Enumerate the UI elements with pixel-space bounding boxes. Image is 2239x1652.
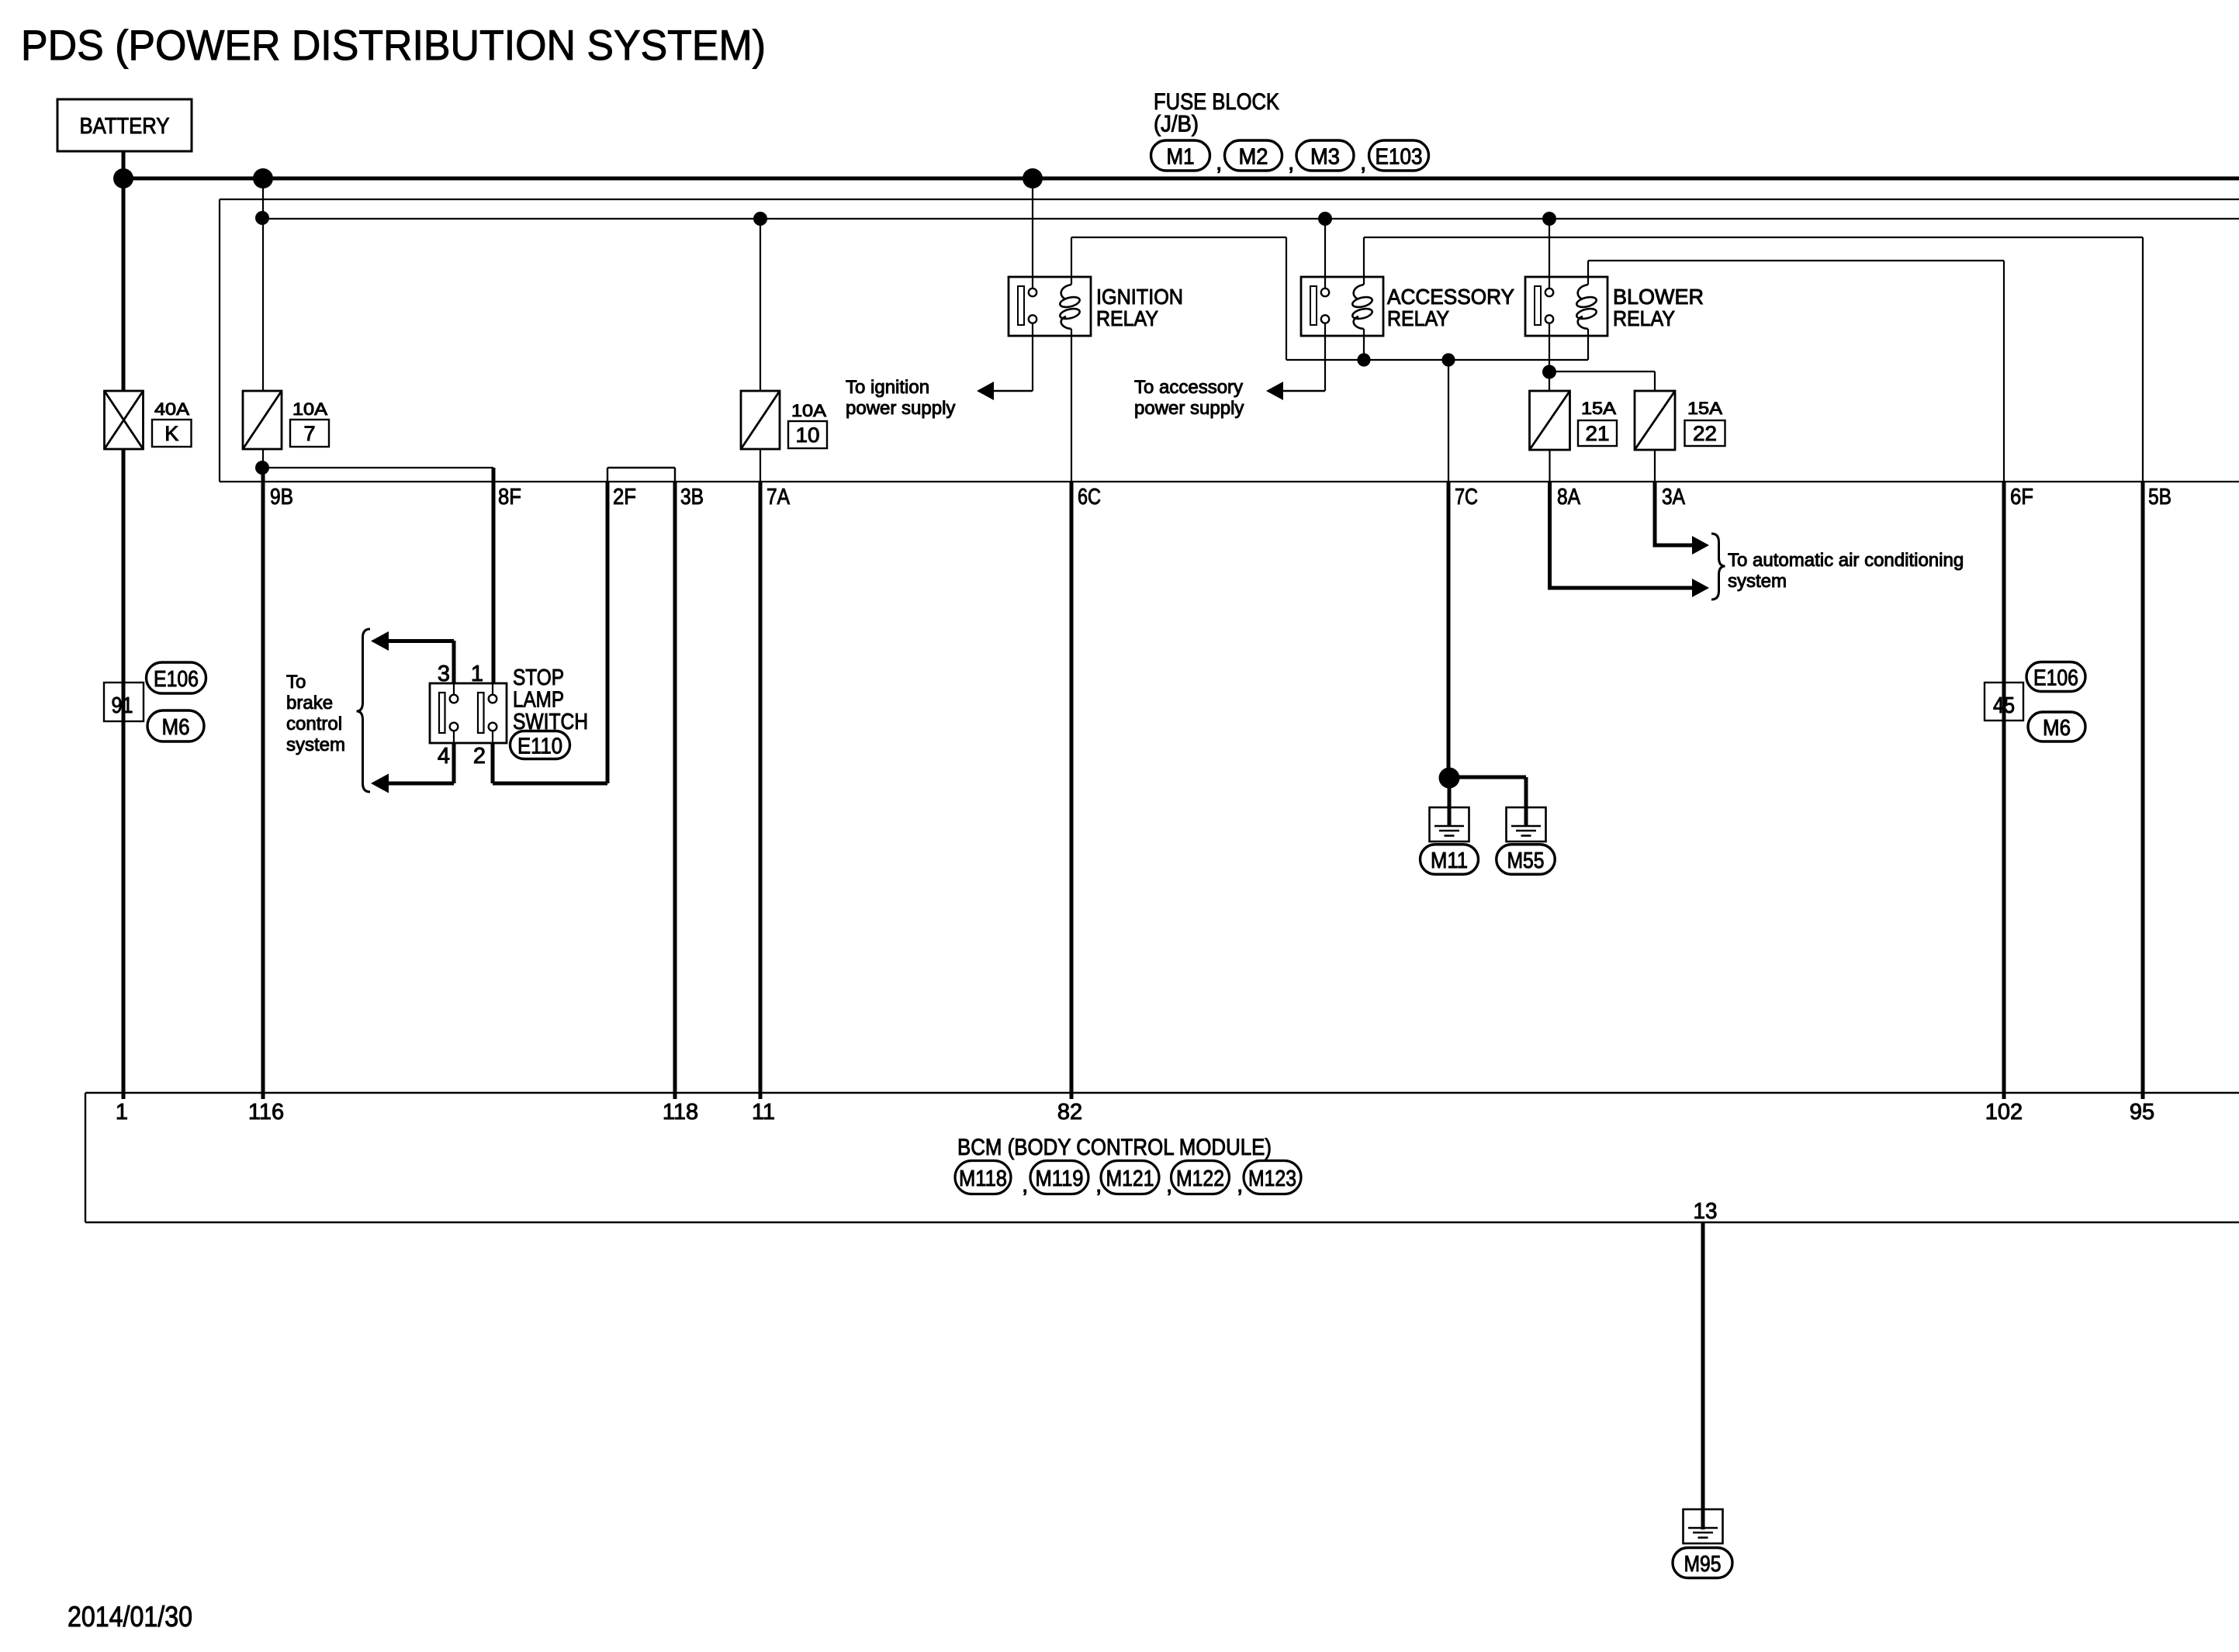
svg-text:M121: M121 [1106, 1166, 1154, 1191]
svg-text:7A: 7A [767, 485, 791, 510]
svg-text:15A: 15A [1581, 399, 1616, 418]
svg-text:M6: M6 [162, 715, 190, 740]
svg-text:M118: M118 [959, 1166, 1007, 1191]
svg-text:IGNITION: IGNITION [1096, 285, 1183, 309]
svg-text:6F: 6F [2010, 485, 2033, 510]
svg-text:,: , [1166, 1172, 1172, 1198]
svg-text:7: 7 [303, 422, 315, 445]
svg-text:11: 11 [752, 1100, 775, 1125]
svg-text:,: , [1022, 1172, 1028, 1198]
svg-text:22: 22 [1693, 422, 1717, 445]
svg-text:K: K [164, 422, 178, 445]
svg-text:6C: 6C [1078, 485, 1101, 510]
svg-text:7C: 7C [1455, 485, 1478, 510]
svg-text:M95: M95 [1684, 1552, 1722, 1577]
svg-text:To: To [286, 672, 306, 693]
svg-text:power supply: power supply [846, 398, 955, 419]
svg-text:E110: E110 [517, 734, 562, 759]
svg-text:M123: M123 [1248, 1166, 1296, 1191]
svg-text:power supply: power supply [1134, 398, 1244, 419]
svg-text:E103: E103 [1376, 145, 1423, 170]
svg-text:E106: E106 [154, 667, 199, 692]
svg-text:4: 4 [438, 744, 450, 769]
svg-text:system: system [286, 734, 345, 755]
svg-text:10A: 10A [292, 399, 327, 419]
svg-text:To automatic air conditioning: To automatic air conditioning [1728, 550, 1964, 571]
svg-text:95: 95 [2130, 1100, 2154, 1125]
svg-text:BLOWER: BLOWER [1613, 285, 1704, 309]
svg-text:45: 45 [1993, 693, 2015, 718]
svg-text:10A: 10A [791, 401, 826, 420]
svg-text:,: , [1095, 1172, 1102, 1198]
svg-text:3B: 3B [680, 485, 704, 510]
svg-text:RELAY: RELAY [1387, 306, 1449, 330]
svg-text:1: 1 [116, 1100, 128, 1125]
svg-text:SWITCH: SWITCH [513, 710, 588, 734]
svg-text:8A: 8A [1557, 485, 1581, 510]
svg-text:system: system [1728, 571, 1787, 592]
svg-text:M55: M55 [1507, 848, 1545, 873]
svg-text:9B: 9B [270, 485, 293, 510]
svg-text:M6: M6 [2043, 716, 2071, 741]
svg-text:,: , [1288, 150, 1294, 175]
svg-text:M122: M122 [1176, 1166, 1224, 1191]
svg-text:brake: brake [286, 693, 333, 714]
svg-text:M3: M3 [1310, 145, 1340, 170]
svg-text:M11: M11 [1431, 848, 1468, 873]
svg-text:M119: M119 [1036, 1166, 1084, 1191]
svg-text:To accessory: To accessory [1134, 377, 1243, 398]
svg-text:10: 10 [796, 423, 820, 447]
svg-text:2F: 2F [613, 485, 636, 510]
svg-text:3A: 3A [1662, 485, 1686, 510]
svg-text:3: 3 [438, 662, 450, 686]
svg-text:82: 82 [1057, 1100, 1082, 1125]
svg-text:PDS (POWER DISTRIBUTION SYSTEM: PDS (POWER DISTRIBUTION SYSTEM) [21, 21, 766, 69]
svg-text:BATTERY: BATTERY [80, 114, 170, 139]
svg-text:15A: 15A [1687, 399, 1722, 418]
svg-text:21: 21 [1586, 422, 1610, 445]
svg-text:LAMP: LAMP [513, 688, 564, 713]
svg-text:,: , [1360, 150, 1366, 175]
svg-text:(J/B): (J/B) [1154, 112, 1199, 137]
svg-text:E106: E106 [2033, 666, 2078, 691]
svg-text:118: 118 [663, 1100, 698, 1125]
svg-text:,: , [1237, 1172, 1243, 1198]
svg-text:40A: 40A [154, 399, 189, 419]
svg-text:,: , [1216, 150, 1222, 175]
svg-text:13: 13 [1694, 1199, 1718, 1224]
svg-text:91: 91 [112, 693, 133, 718]
svg-text:control: control [286, 714, 342, 734]
svg-text:ACCESSORY: ACCESSORY [1387, 285, 1514, 309]
svg-text:RELAY: RELAY [1096, 306, 1158, 330]
svg-text:To ignition: To ignition [846, 377, 929, 398]
svg-text:M2: M2 [1239, 145, 1268, 170]
svg-text:1: 1 [471, 662, 483, 686]
svg-text:116: 116 [248, 1100, 284, 1125]
svg-text:BCM (BODY CONTROL MODULE): BCM (BODY CONTROL MODULE) [957, 1135, 1272, 1160]
svg-text:RELAY: RELAY [1613, 306, 1675, 330]
svg-text:2014/01/30: 2014/01/30 [67, 1601, 192, 1633]
svg-text:8F: 8F [498, 485, 521, 510]
svg-text:5B: 5B [2148, 485, 2172, 510]
svg-text:M1: M1 [1167, 145, 1195, 170]
svg-text:2: 2 [473, 744, 486, 769]
svg-text:102: 102 [1985, 1100, 2023, 1125]
svg-text:STOP: STOP [513, 665, 564, 690]
